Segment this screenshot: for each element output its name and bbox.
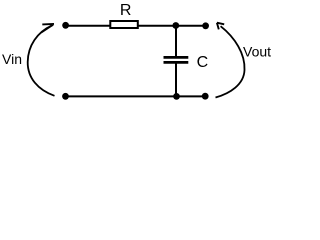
wire: bottom rail — [66, 95, 206, 97]
Vin label — [2, 51, 22, 67]
node D: Vin bottom node — [62, 93, 69, 100]
node F: Vout bottom node — [202, 93, 209, 100]
node E: bottom junction at capacitor — [173, 93, 180, 100]
node B: top junction at capacitor — [172, 22, 179, 29]
wire: capacitor lower stem — [175, 64, 177, 97]
node C: Vout top node — [202, 22, 209, 29]
svg-text:Vin: Vin — [2, 51, 22, 67]
svg-text:R: R — [120, 2, 132, 19]
wire: capacitor upper stem — [175, 26, 177, 57]
resistor R — [110, 2, 138, 28]
Vout label — [243, 44, 271, 60]
svg-text:Vout: Vout — [243, 44, 271, 60]
node A: Vin top node — [62, 22, 69, 29]
svg-text:C: C — [197, 54, 209, 71]
capacitor C — [164, 54, 209, 71]
Vout annotation arc with arrowhead — [216, 23, 245, 98]
Vin annotation arc with arrowhead — [28, 24, 55, 96]
wire: top rail left (node A to resistor) — [65, 25, 110, 27]
wire: top rail right (resistor to node C) — [138, 25, 206, 27]
